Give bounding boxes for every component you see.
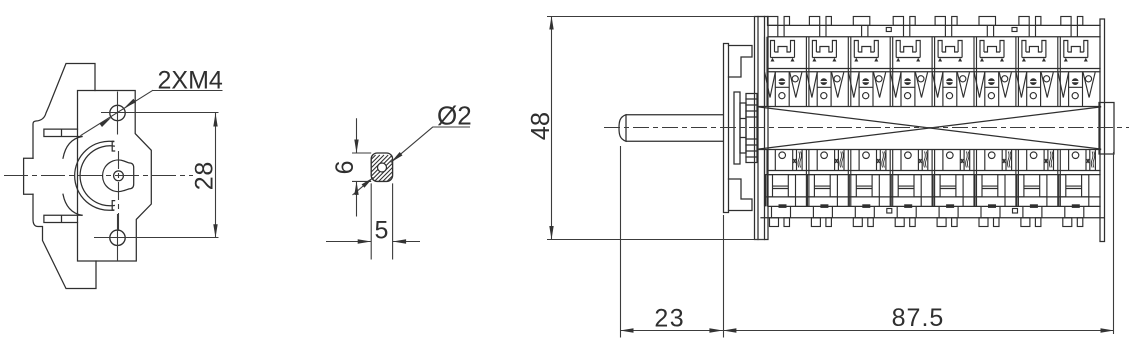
svg-text:48: 48 bbox=[527, 112, 555, 140]
svg-text:87.5: 87.5 bbox=[892, 304, 945, 332]
svg-text:28: 28 bbox=[191, 161, 219, 190]
svg-text:6: 6 bbox=[331, 160, 359, 174]
svg-text:Ø2: Ø2 bbox=[437, 101, 472, 131]
svg-text:23: 23 bbox=[654, 305, 685, 333]
svg-text:2XM4: 2XM4 bbox=[158, 67, 223, 95]
svg-text:5: 5 bbox=[375, 217, 389, 245]
